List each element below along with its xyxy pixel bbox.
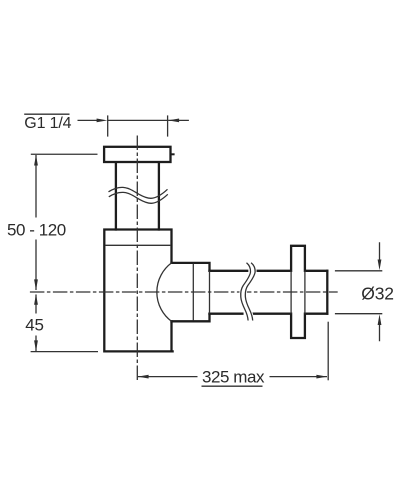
diameter dimension line (379, 242, 381, 341)
wall flange upper cap (291, 246, 305, 271)
arrow diameter top (points down) (378, 260, 382, 271)
325 right extension line (327, 322, 329, 381)
arrow 325 right (points right) (316, 375, 327, 379)
arrow 45 top (points up) (34, 294, 38, 305)
bottom extension line (31, 351, 98, 353)
325 dimension line (138, 376, 327, 378)
wall flange right edge through pipe (304, 271, 306, 314)
diameter ext line bottom (335, 313, 382, 315)
outlet nut top edge (172, 263, 210, 271)
arrow 325 left (points left) (138, 375, 149, 379)
body-to-outlet arc (157, 263, 172, 321)
G1 1/4 extension line right (167, 115, 169, 136)
horizontal break wave left (241, 263, 251, 321)
flange side tick artifact (172, 153, 174, 155)
white band of horizontal-pipe break (243, 263, 253, 321)
G1 1/4 leader line (78, 119, 99, 121)
45 dimension line (35, 295, 37, 352)
outlet nut face line (192, 264, 194, 321)
vertical break wave upper (109, 187, 168, 198)
50-120 top extension line (31, 153, 98, 155)
50-120 dimension line (35, 155, 37, 290)
body nut joint line (105, 244, 170, 246)
trap body outline (104, 230, 172, 352)
horizontal outlet pipe bottom edge (210, 313, 328, 315)
svg-text:325 max: 325 max (202, 368, 265, 387)
horizontal outlet pipe top edge (210, 270, 328, 272)
vertical break wave lower (109, 192, 168, 203)
arrow G1 right (points left) (168, 119, 179, 123)
horizontal break wave right (245, 263, 255, 321)
G1 1/4 extension line left (107, 115, 109, 136)
arrow 50-120 bottom (points down) (34, 279, 38, 290)
outlet pipe end cap (326, 271, 328, 314)
arrow 50-120 top (points up) (34, 155, 38, 166)
top flange (tailpiece nut) (104, 147, 170, 162)
G1 1/4 right tail (168, 119, 189, 121)
wall flange left edge through pipe (290, 271, 292, 314)
325 max underline (202, 385, 263, 387)
outlet nut bottom edge (172, 314, 210, 322)
G1 1/4 overline (24, 113, 69, 115)
arrow G1 left (points right) (97, 119, 108, 123)
svg-text:Ø32: Ø32 (361, 284, 393, 304)
wall flange lower cap (291, 314, 305, 338)
svg-text:50 - 120: 50 - 120 (7, 220, 66, 239)
outlet socket line (209, 271, 211, 314)
horizontal centerline (30, 291, 338, 293)
diameter ext line top (335, 270, 382, 272)
svg-text:G1 1/4: G1 1/4 (24, 115, 71, 132)
G1 1/4 dimension line (108, 119, 168, 121)
arrow 45 bottom (points down) (34, 340, 38, 351)
vertical centerline (136, 136, 138, 382)
svg-text:45: 45 (25, 316, 44, 335)
vertical inlet pipe left edge (115, 163, 117, 229)
arrow diameter bottom (points up) (378, 314, 382, 325)
vertical inlet pipe right edge (158, 163, 160, 229)
